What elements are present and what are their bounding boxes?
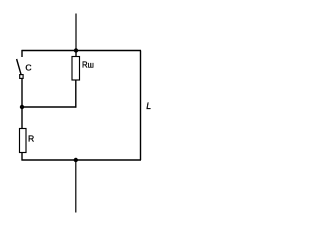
wire Rsh top stub	[75, 51, 77, 58]
wire left middle	[21, 79, 23, 108]
switch C blade	[17, 59, 21, 74]
wire bottom horizontal	[22, 159, 142, 161]
svg-text:C: C	[25, 63, 31, 73]
switch C terminal square	[20, 75, 23, 79]
svg-text:R: R	[28, 134, 34, 144]
node left junction	[20, 105, 24, 109]
resistor Rsh body	[72, 57, 80, 81]
resistor R body	[20, 129, 27, 153]
wire top terminal vertical	[75, 14, 77, 51]
svg-text:Rш: Rш	[82, 61, 94, 70]
wire middle horizontal (junction to Rsh bottom)	[22, 106, 76, 108]
node bottom junction	[74, 158, 78, 162]
wire left upper stub	[21, 50, 23, 57]
wire bottom terminal vertical	[75, 160, 77, 213]
wire right vertical (branch L)	[140, 51, 142, 161]
wire left to resistor R	[21, 107, 23, 129]
node top junction	[74, 48, 78, 52]
wire top horizontal	[22, 50, 142, 52]
wire resistor R to bottom	[21, 153, 23, 161]
wire Rsh bottom	[75, 80, 77, 108]
svg-text:L: L	[146, 101, 151, 111]
